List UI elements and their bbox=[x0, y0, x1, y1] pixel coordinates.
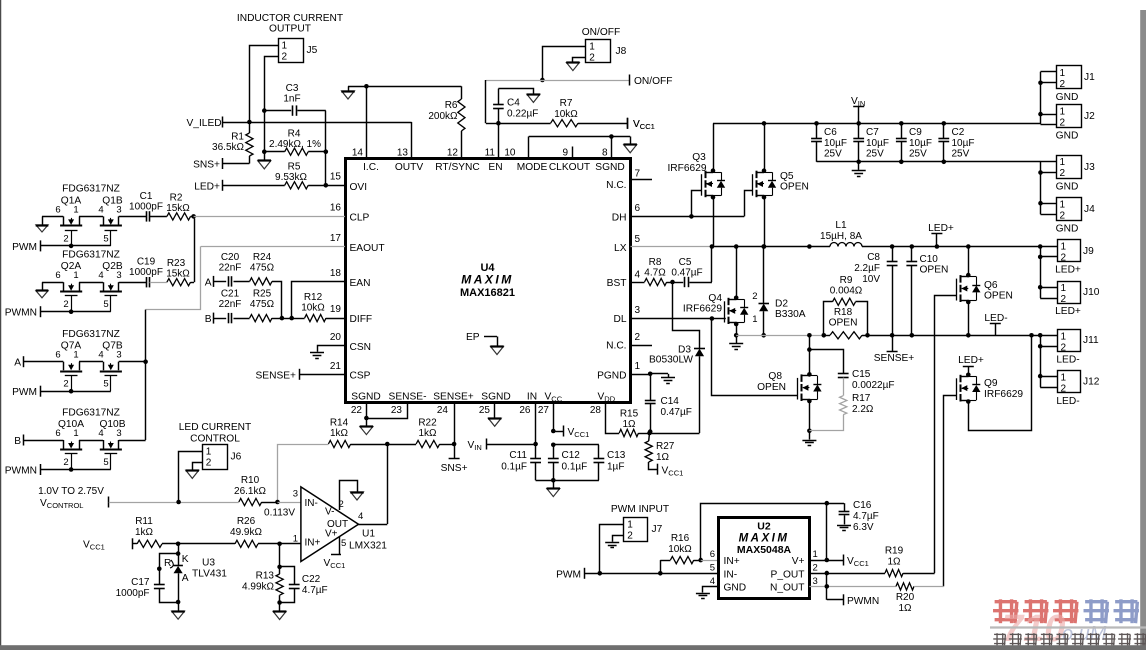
node R24/R25 junction bbox=[280, 316, 294, 321]
wire J1/J2 trunk bbox=[1038, 72, 1043, 124]
wire J5 pin2 down bbox=[265, 57, 279, 111]
svg-text:0.113V: 0.113V bbox=[264, 508, 295, 519]
svg-text:A: A bbox=[205, 278, 212, 289]
svg-text:R23: R23 bbox=[167, 258, 186, 269]
svg-text:R10: R10 bbox=[241, 475, 260, 486]
label INDUCTOR CURRENT OUTPUT bbox=[237, 13, 343, 35]
svg-text:LED-: LED- bbox=[984, 313, 1007, 324]
svg-text:C4: C4 bbox=[507, 98, 520, 109]
net label LED- above rail bbox=[984, 313, 1007, 335]
svg-text:5: 5 bbox=[103, 233, 108, 244]
svg-text:22nF: 22nF bbox=[219, 263, 242, 274]
svg-text:IRF6629: IRF6629 bbox=[683, 304, 722, 315]
net label VCC1 top left of power bbox=[628, 118, 655, 131]
svg-text:J8: J8 bbox=[616, 46, 627, 57]
wire LX rail bbox=[631, 244, 1058, 249]
svg-text:4: 4 bbox=[710, 576, 715, 587]
svg-text:PWMN: PWMN bbox=[5, 466, 37, 477]
svg-text:1000pF: 1000pF bbox=[116, 588, 150, 599]
svg-text:2: 2 bbox=[63, 233, 68, 244]
wire J8 pin1 to ON/OFF net bbox=[540, 47, 586, 83]
net label A input bbox=[205, 276, 214, 289]
svg-text:10µF: 10µF bbox=[952, 138, 975, 149]
wire J7 pin1 to PWM bbox=[598, 525, 624, 576]
resistor R14 1k bbox=[278, 418, 388, 503]
capacitor C22 4.7uF bbox=[277, 567, 327, 605]
svg-text:R13: R13 bbox=[256, 571, 275, 582]
frame left border bbox=[0, 0, 2, 646]
U4 pin numbers left bbox=[330, 172, 342, 373]
net label PWM bbox=[12, 386, 40, 399]
svg-text:1: 1 bbox=[1061, 242, 1067, 253]
wire Q1A gate row PWM bbox=[40, 244, 111, 249]
svg-text:17: 17 bbox=[330, 233, 342, 244]
op-amp U1 LMX321 triangle bbox=[293, 487, 388, 562]
transistor Q9 IRF6629 bbox=[957, 375, 1024, 402]
svg-text:V-: V- bbox=[325, 507, 334, 518]
capacitor C16 4.7uF 6.3V bbox=[827, 500, 879, 533]
svg-text:IRF6629: IRF6629 bbox=[984, 389, 1023, 400]
node R11/U3 junction bbox=[176, 542, 181, 547]
svg-text:C17: C17 bbox=[131, 577, 150, 588]
ground below Q4 source bbox=[729, 335, 743, 349]
svg-text:4: 4 bbox=[98, 270, 103, 281]
svg-text:IN-: IN- bbox=[305, 498, 318, 509]
svg-text:LED-: LED- bbox=[1056, 396, 1079, 407]
wire CLP to pin16 bbox=[194, 216, 345, 218]
wire VCONTROL row bbox=[109, 500, 239, 505]
svg-text:2: 2 bbox=[206, 457, 212, 468]
svg-text:5: 5 bbox=[341, 538, 346, 549]
svg-text:1: 1 bbox=[589, 42, 595, 53]
U4 pin numbers top bbox=[352, 148, 608, 159]
svg-text:1kΩ: 1kΩ bbox=[330, 428, 349, 439]
svg-text:SENSE+: SENSE+ bbox=[433, 392, 474, 403]
svg-text:1: 1 bbox=[752, 314, 757, 325]
svg-text:R2: R2 bbox=[170, 193, 183, 204]
wire ON/OFF horizontal bbox=[486, 80, 630, 123]
net label SNS+ below pin24 bbox=[441, 444, 468, 474]
svg-text:OPEN: OPEN bbox=[984, 291, 1013, 302]
resistor R18 OPEN in series bbox=[822, 307, 870, 339]
wire EAN pin18 bbox=[292, 282, 346, 319]
svg-text:EP: EP bbox=[466, 332, 480, 343]
svg-text:25V: 25V bbox=[824, 149, 842, 160]
svg-text:U1: U1 bbox=[362, 529, 375, 540]
net label PWMN below U2 bbox=[827, 573, 880, 607]
svg-text:C2: C2 bbox=[952, 127, 965, 138]
svg-text:C8: C8 bbox=[867, 252, 880, 263]
net label VIN bbox=[468, 439, 487, 453]
svg-text:6: 6 bbox=[55, 204, 60, 215]
net label LED+ above rail bbox=[928, 223, 954, 249]
U4 pin 7 NC stub bbox=[631, 179, 653, 181]
svg-text:49.9kΩ: 49.9kΩ bbox=[230, 527, 262, 538]
svg-text:1: 1 bbox=[1061, 283, 1067, 294]
svg-text:J11: J11 bbox=[1083, 335, 1099, 346]
node R4/R5 right junction bbox=[324, 152, 329, 188]
svg-text:OPEN: OPEN bbox=[757, 382, 786, 393]
label PWM INPUT bbox=[611, 504, 669, 515]
svg-text:27: 27 bbox=[538, 405, 550, 416]
svg-text:2: 2 bbox=[1061, 294, 1067, 305]
capacitor C11 0.1uF bbox=[501, 444, 541, 480]
svg-text:14: 14 bbox=[352, 148, 364, 159]
wire Q9 gate riser from R20 bbox=[944, 396, 958, 587]
resistor R23 15k bbox=[166, 258, 194, 286]
wire BST to D3 cathode bbox=[673, 282, 700, 348]
wire IN+ node down to R13/C22 bbox=[277, 544, 282, 569]
svg-text:1: 1 bbox=[73, 350, 78, 361]
wire V+ pin1 to VCC1 bbox=[809, 503, 869, 568]
svg-text:4: 4 bbox=[98, 428, 103, 439]
U4 EP pin bbox=[466, 332, 504, 355]
svg-text:15kΩ: 15kΩ bbox=[166, 203, 190, 214]
svg-text:10µF: 10µF bbox=[909, 138, 932, 149]
svg-text:1: 1 bbox=[635, 361, 641, 372]
wire VCC pin27 down bbox=[551, 403, 556, 447]
wire Q5 source to LX bbox=[762, 195, 767, 247]
svg-text:IN-: IN- bbox=[724, 570, 738, 581]
svg-text:25: 25 bbox=[479, 405, 491, 416]
wire pin14 I.C. net bbox=[348, 84, 461, 158]
svg-text:C11: C11 bbox=[509, 450, 527, 461]
resistor R11 1k bbox=[132, 516, 178, 547]
svg-text:1µF: 1µF bbox=[607, 462, 624, 473]
wire Q6 drain bbox=[966, 244, 971, 277]
svg-text:6: 6 bbox=[710, 549, 715, 560]
resistor R20 1ohm bbox=[896, 583, 944, 614]
svg-text:25V: 25V bbox=[866, 149, 884, 160]
transistor Q8 OPEN bbox=[757, 371, 821, 401]
resistor R6 200k bbox=[428, 86, 465, 158]
svg-text:5: 5 bbox=[103, 457, 108, 468]
svg-text:25V: 25V bbox=[909, 149, 927, 160]
svg-text:SGND: SGND bbox=[481, 392, 510, 403]
U4 pin 9 CLKOUT stub bbox=[572, 147, 574, 159]
svg-text:GND: GND bbox=[724, 583, 747, 594]
svg-text:1Ω: 1Ω bbox=[898, 603, 912, 614]
wire Q9 source return to LED- rail bbox=[966, 333, 1034, 431]
U4 pin 2 NC stub bbox=[631, 345, 653, 347]
U4 top pin labels bbox=[363, 162, 625, 173]
svg-text:2: 2 bbox=[635, 332, 641, 343]
svg-text:R22: R22 bbox=[418, 418, 437, 429]
svg-text:R20: R20 bbox=[896, 592, 915, 603]
wire Q8 drain bbox=[807, 335, 812, 376]
svg-text:5: 5 bbox=[103, 379, 108, 390]
svg-text:R9: R9 bbox=[840, 275, 853, 286]
svg-text:18: 18 bbox=[330, 268, 342, 279]
svg-text:CONTROL: CONTROL bbox=[190, 434, 240, 445]
svg-text:5: 5 bbox=[103, 299, 108, 310]
svg-text:o.uM: o.uM bbox=[1062, 623, 1107, 645]
net label LED+ bbox=[194, 180, 222, 193]
svg-text:6.3V: 6.3V bbox=[853, 522, 874, 533]
wire Q2A gate row PWMN bbox=[40, 309, 111, 314]
wire Q5 gate bbox=[745, 191, 753, 217]
transistor Q10A/Q10B FDG6317NZ bbox=[55, 407, 125, 469]
svg-text:LED CURRENT: LED CURRENT bbox=[179, 422, 251, 433]
svg-text:Q9: Q9 bbox=[984, 378, 998, 389]
wire SGND pin22 to ground and SENSE- pin23 bbox=[364, 403, 407, 421]
node R16/IN+ junction bbox=[698, 558, 718, 563]
svg-text:10: 10 bbox=[504, 148, 516, 159]
svg-text:GND: GND bbox=[1056, 92, 1079, 103]
svg-text:2: 2 bbox=[63, 299, 68, 310]
wire Q10A interconnect bbox=[79, 440, 103, 442]
svg-text:2: 2 bbox=[63, 379, 68, 390]
svg-text:R12: R12 bbox=[304, 292, 323, 303]
svg-text:R15: R15 bbox=[620, 409, 639, 420]
transistor Q2A/Q2B FDG6317NZ bbox=[55, 250, 123, 312]
svg-text:C20: C20 bbox=[221, 252, 240, 263]
wire Q1A interconnect bbox=[79, 216, 103, 218]
svg-text:2: 2 bbox=[813, 563, 818, 574]
svg-text:TLV431: TLV431 bbox=[192, 569, 227, 580]
svg-text:16: 16 bbox=[330, 203, 342, 214]
wire DL to Q8 gate bbox=[712, 319, 798, 396]
svg-text:OPEN: OPEN bbox=[829, 318, 858, 329]
svg-text:200kΩ: 200kΩ bbox=[428, 111, 458, 122]
svg-text:15kΩ: 15kΩ bbox=[166, 269, 190, 280]
svg-text:1: 1 bbox=[1060, 106, 1066, 117]
transistor Q5 OPEN bbox=[753, 171, 809, 198]
U2 pin labels bbox=[724, 556, 805, 594]
svg-text:11: 11 bbox=[485, 148, 496, 159]
node BST junction bbox=[670, 280, 675, 285]
svg-text:R1: R1 bbox=[231, 132, 244, 143]
wire U1 V- pin2 to ground bbox=[340, 481, 364, 511]
svg-text:4.99kΩ: 4.99kΩ bbox=[242, 582, 274, 593]
svg-text:3: 3 bbox=[813, 576, 818, 587]
wire J3/J4 trunk bbox=[1038, 162, 1043, 215]
svg-text:MAX16821: MAX16821 bbox=[460, 287, 515, 299]
svg-text:0.22µF: 0.22µF bbox=[507, 109, 538, 120]
ground below R13 bbox=[273, 603, 286, 620]
svg-text:ON/OFF: ON/OFF bbox=[582, 27, 620, 38]
connector J6 bbox=[203, 445, 242, 470]
capacitor C4 0.22uF bbox=[493, 89, 538, 124]
svg-text:LED+: LED+ bbox=[1055, 265, 1081, 276]
wire V_ILED to OUTV pin13 bbox=[223, 122, 412, 158]
label GND under J4 bbox=[1056, 224, 1079, 235]
U4 bottom pin labels bbox=[351, 392, 615, 404]
svg-text:4: 4 bbox=[98, 204, 103, 215]
wire P_OUT pin2 to R19 bbox=[809, 571, 885, 576]
svg-text:13: 13 bbox=[397, 148, 409, 159]
svg-text:V+: V+ bbox=[792, 556, 805, 567]
svg-text:5: 5 bbox=[635, 234, 641, 245]
svg-text:J1: J1 bbox=[1084, 72, 1095, 83]
svg-text:J12: J12 bbox=[1083, 377, 1100, 388]
svg-text:R25: R25 bbox=[253, 289, 272, 300]
node C3 left junction bbox=[262, 108, 267, 113]
svg-text:MODE: MODE bbox=[517, 162, 548, 173]
node VCC1 node R15/R27/C14/D3 bbox=[647, 431, 652, 436]
connector J2 bbox=[1041, 105, 1096, 129]
svg-text:CSP: CSP bbox=[350, 371, 371, 382]
wire J11/J12 trunk bbox=[1038, 333, 1043, 387]
wire VIN to IN pin26 bbox=[487, 403, 538, 447]
svg-text:2.2µF: 2.2µF bbox=[854, 263, 880, 274]
svg-text:LED-: LED- bbox=[1056, 355, 1079, 366]
transistor Q6 OPEN bbox=[957, 275, 1013, 302]
svg-text:R5: R5 bbox=[288, 162, 301, 173]
frame bottom gray band bbox=[0, 645, 1146, 650]
svg-text:PWM INPUT: PWM INPUT bbox=[611, 504, 669, 515]
svg-text:R24: R24 bbox=[253, 252, 272, 263]
svg-text:10µF: 10µF bbox=[824, 138, 847, 149]
net label VCC1 at R11 bbox=[83, 538, 133, 551]
svg-text:R6: R6 bbox=[445, 100, 458, 111]
svg-text:J6: J6 bbox=[231, 452, 242, 463]
connector J1 bbox=[1041, 66, 1096, 90]
svg-text:R17: R17 bbox=[852, 393, 871, 404]
transistor Q3 IRF6629 bbox=[667, 152, 725, 197]
node Q8 drain tap on rail bbox=[807, 333, 812, 338]
wire Q10 drain to EAOUT net bbox=[119, 440, 146, 442]
svg-text:CLKOUT: CLKOUT bbox=[549, 162, 590, 173]
svg-text:10µF: 10µF bbox=[866, 138, 889, 149]
svg-text:25V: 25V bbox=[952, 149, 970, 160]
capacitor C7 10uF 25V bbox=[853, 121, 889, 162]
svg-text:1: 1 bbox=[1060, 68, 1066, 79]
svg-text:3: 3 bbox=[116, 350, 121, 361]
svg-text:LMX321: LMX321 bbox=[349, 541, 387, 552]
svg-text:A: A bbox=[14, 358, 21, 369]
svg-text:C7: C7 bbox=[866, 127, 879, 138]
svg-text:U2: U2 bbox=[757, 521, 771, 533]
wire DL pin3 bbox=[631, 316, 726, 321]
transistor Q4 IRF6629 bbox=[683, 293, 748, 324]
svg-text:SENSE+: SENSE+ bbox=[256, 371, 297, 382]
resistor R9 0.004ohm parallel bbox=[824, 275, 868, 335]
svg-text:J9: J9 bbox=[1083, 246, 1094, 257]
svg-text:INDUCTOR CURRENT: INDUCTOR CURRENT bbox=[237, 13, 343, 24]
wire U2 GND pin4 to ground bbox=[696, 587, 719, 599]
svg-text:C12: C12 bbox=[562, 450, 581, 461]
svg-text:OUTPUT: OUTPUT bbox=[269, 24, 311, 35]
wire J9/J10 trunk bbox=[1038, 244, 1043, 298]
svg-text:FDG6317NZ: FDG6317NZ bbox=[62, 250, 120, 261]
svg-text:4: 4 bbox=[358, 511, 363, 522]
svg-text:PWM: PWM bbox=[12, 387, 37, 398]
label LED+ under J9 bbox=[1055, 265, 1081, 276]
label GND under J3 bbox=[1056, 182, 1079, 193]
label LED+ under J10 bbox=[1055, 306, 1081, 317]
connector J10 bbox=[1040, 282, 1100, 306]
capacitor C14 0.47uF bbox=[645, 374, 692, 434]
svg-text:SENSE-: SENSE- bbox=[389, 392, 427, 403]
IC U2 MAX5048A body bbox=[719, 518, 810, 599]
svg-text:C19: C19 bbox=[137, 257, 156, 268]
node R14/R22 junction to U1 out bbox=[385, 442, 390, 524]
svg-text:ON/OFF: ON/OFF bbox=[634, 76, 672, 87]
svg-text:J10: J10 bbox=[1083, 287, 1100, 298]
svg-text:9: 9 bbox=[562, 148, 568, 159]
connector J11 bbox=[1040, 330, 1099, 354]
svg-text:15µH, 8A: 15µH, 8A bbox=[820, 231, 862, 242]
svg-text:N.C.: N.C. bbox=[606, 341, 626, 352]
wire VIN top rail bbox=[713, 123, 1041, 125]
net label SENSE+ at CSP pin21 bbox=[256, 369, 346, 382]
ground at pin14 net bbox=[341, 86, 354, 99]
wire Q4 source down bbox=[734, 322, 739, 338]
wire Q8 source bbox=[807, 399, 812, 433]
svg-text:IN+: IN+ bbox=[305, 538, 321, 549]
resistor R15 1ohm bbox=[619, 409, 649, 437]
resistor R24 475 bbox=[250, 252, 282, 318]
svg-text:2: 2 bbox=[752, 291, 757, 302]
net label PWM bbox=[556, 568, 584, 581]
svg-text:8: 8 bbox=[602, 148, 608, 159]
svg-text:0.47µF: 0.47µF bbox=[661, 407, 692, 418]
svg-text:U3: U3 bbox=[202, 558, 215, 569]
svg-text:1: 1 bbox=[73, 270, 78, 281]
capacitor C10 OPEN bbox=[906, 244, 948, 337]
capacitor C13 1uF bbox=[553, 445, 625, 481]
svg-text:19: 19 bbox=[330, 304, 342, 315]
svg-text:OVI: OVI bbox=[350, 182, 368, 193]
svg-text:R4: R4 bbox=[288, 129, 301, 140]
net label LED+ above Q9 bbox=[958, 355, 984, 375]
net label VCC1 below R27 bbox=[658, 464, 684, 478]
net label B at Q10 bbox=[14, 435, 63, 448]
svg-text:1: 1 bbox=[627, 520, 633, 531]
svg-text:C9: C9 bbox=[909, 127, 922, 138]
connector J7 bbox=[624, 518, 663, 542]
svg-text:Q8: Q8 bbox=[768, 371, 782, 382]
svg-text:LED+: LED+ bbox=[928, 223, 954, 234]
svg-text:1000pF: 1000pF bbox=[129, 267, 163, 278]
svg-text:3: 3 bbox=[116, 428, 121, 439]
wire pin11 EN stub bbox=[498, 123, 500, 158]
capacitor C1 1000pF bbox=[119, 191, 167, 222]
svg-text:1Ω: 1Ω bbox=[622, 419, 636, 430]
wire U3 R pin bracket to C17 bbox=[157, 554, 178, 586]
svg-text:C16: C16 bbox=[853, 500, 872, 511]
svg-text:4: 4 bbox=[635, 270, 641, 281]
capacitor C12 0.1uF bbox=[548, 445, 587, 481]
wire U1 V+ pin5 to VCC1 bbox=[324, 537, 346, 570]
U4 pin numbers right bbox=[635, 169, 641, 373]
node IN+ junction bbox=[277, 542, 301, 547]
resistor R1 36.5k bbox=[212, 132, 253, 157]
capacitor C9 10uF 25V bbox=[896, 121, 932, 162]
shunt reference U3 TLV431 bbox=[164, 544, 227, 605]
resistor R10 26.1k bbox=[234, 475, 277, 506]
svg-text:OPEN: OPEN bbox=[780, 182, 809, 193]
capacitor C6 10uF 25V bbox=[811, 121, 847, 162]
svg-text:1000pF: 1000pF bbox=[129, 202, 163, 213]
svg-text:20: 20 bbox=[330, 332, 342, 343]
wire IN+ node to V+ rail bbox=[701, 501, 830, 560]
label LED CURRENT CONTROL bbox=[179, 422, 251, 445]
svg-text:1: 1 bbox=[282, 41, 288, 52]
svg-text:2: 2 bbox=[282, 52, 288, 63]
svg-text:IN+: IN+ bbox=[724, 556, 740, 567]
wire OVI pin15 bbox=[326, 185, 345, 187]
svg-text:2: 2 bbox=[63, 457, 68, 468]
svg-text:PGND: PGND bbox=[597, 371, 626, 382]
svg-text:15: 15 bbox=[330, 172, 342, 183]
svg-text:I.C.: I.C. bbox=[363, 162, 379, 173]
svg-text:1Ω: 1Ω bbox=[656, 452, 670, 463]
resistor R5 9.53k bbox=[223, 162, 326, 189]
inductor L1 15uH 8A bbox=[820, 220, 862, 247]
wire N_OUT pin3 to R20 bbox=[809, 584, 896, 589]
